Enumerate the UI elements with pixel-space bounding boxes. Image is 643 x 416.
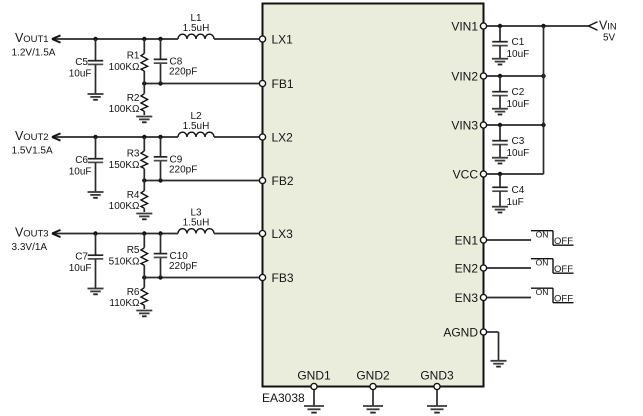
svg-text:110KΩ: 110KΩ [109, 298, 140, 309]
svg-text:C6: C6 [75, 155, 88, 166]
svg-text:OUT1: OUT1 [23, 34, 48, 45]
svg-text:510KΩ: 510KΩ [109, 257, 140, 268]
svg-text:100KΩ: 100KΩ [109, 201, 140, 212]
svg-text:1.5uH: 1.5uH [183, 23, 210, 34]
svg-text:ON: ON [536, 229, 549, 239]
svg-text:LX3: LX3 [272, 227, 294, 241]
svg-text:FB3: FB3 [272, 271, 294, 285]
svg-text:OFF: OFF [554, 293, 573, 304]
svg-text:C5: C5 [75, 57, 88, 68]
svg-text:10uF: 10uF [507, 148, 530, 159]
svg-text:10uF: 10uF [69, 263, 92, 274]
svg-text:EN1: EN1 [455, 233, 479, 247]
svg-text:EN2: EN2 [455, 261, 479, 275]
svg-text:OFF: OFF [554, 236, 573, 247]
svg-text:R4: R4 [127, 190, 140, 201]
svg-text:R3: R3 [127, 149, 140, 160]
svg-text:10uF: 10uF [507, 99, 530, 110]
svg-text:C3: C3 [512, 136, 525, 147]
svg-text:GND2: GND2 [356, 369, 390, 383]
svg-text:C7: C7 [75, 252, 88, 263]
svg-text:AGND: AGND [443, 325, 478, 339]
svg-text:GND3: GND3 [420, 369, 454, 383]
svg-text:220pF: 220pF [169, 67, 197, 78]
svg-text:IN: IN [607, 22, 617, 33]
svg-text:VCC: VCC [453, 167, 479, 181]
svg-text:100KΩ: 100KΩ [109, 104, 140, 115]
svg-text:1.5uH: 1.5uH [183, 121, 210, 132]
svg-text:R5: R5 [127, 245, 140, 256]
svg-text:GND1: GND1 [297, 369, 331, 383]
svg-text:LX2: LX2 [272, 130, 294, 144]
svg-text:R6: R6 [127, 287, 140, 298]
svg-text:R2: R2 [127, 93, 140, 104]
svg-text:220pF: 220pF [169, 261, 197, 272]
svg-text:5V: 5V [603, 33, 616, 44]
svg-text:FB2: FB2 [272, 174, 294, 188]
svg-text:10uF: 10uF [69, 167, 92, 178]
svg-text:150KΩ: 150KΩ [109, 160, 140, 171]
svg-text:10uF: 10uF [507, 49, 530, 60]
svg-text:C4: C4 [512, 185, 525, 196]
svg-text:C2: C2 [512, 87, 525, 98]
svg-text:3.3V/1A: 3.3V/1A [12, 242, 48, 253]
svg-text:ON: ON [536, 257, 549, 267]
svg-text:C1: C1 [512, 37, 525, 48]
svg-text:EN3: EN3 [455, 291, 479, 305]
svg-text:VIN3: VIN3 [451, 118, 478, 132]
svg-text:1uF: 1uF [507, 197, 524, 208]
svg-text:220pF: 220pF [169, 165, 197, 176]
svg-text:10uF: 10uF [69, 69, 92, 80]
svg-text:EA3038: EA3038 [262, 391, 305, 405]
svg-text:OFF: OFF [554, 264, 573, 275]
svg-text:OUT3: OUT3 [23, 229, 48, 240]
svg-text:OUT2: OUT2 [23, 132, 48, 143]
svg-text:1.5uH: 1.5uH [183, 218, 210, 229]
svg-text:FB1: FB1 [272, 77, 294, 91]
svg-text:VIN2: VIN2 [451, 69, 478, 83]
svg-text:ON: ON [536, 287, 549, 297]
svg-text:LX1: LX1 [272, 32, 294, 46]
svg-text:R1: R1 [127, 51, 140, 62]
svg-text:1.5V1.5A: 1.5V1.5A [12, 146, 53, 157]
svg-text:100KΩ: 100KΩ [109, 62, 140, 73]
svg-text:VIN1: VIN1 [451, 19, 478, 33]
svg-text:1.2V/1.5A: 1.2V/1.5A [12, 48, 56, 59]
